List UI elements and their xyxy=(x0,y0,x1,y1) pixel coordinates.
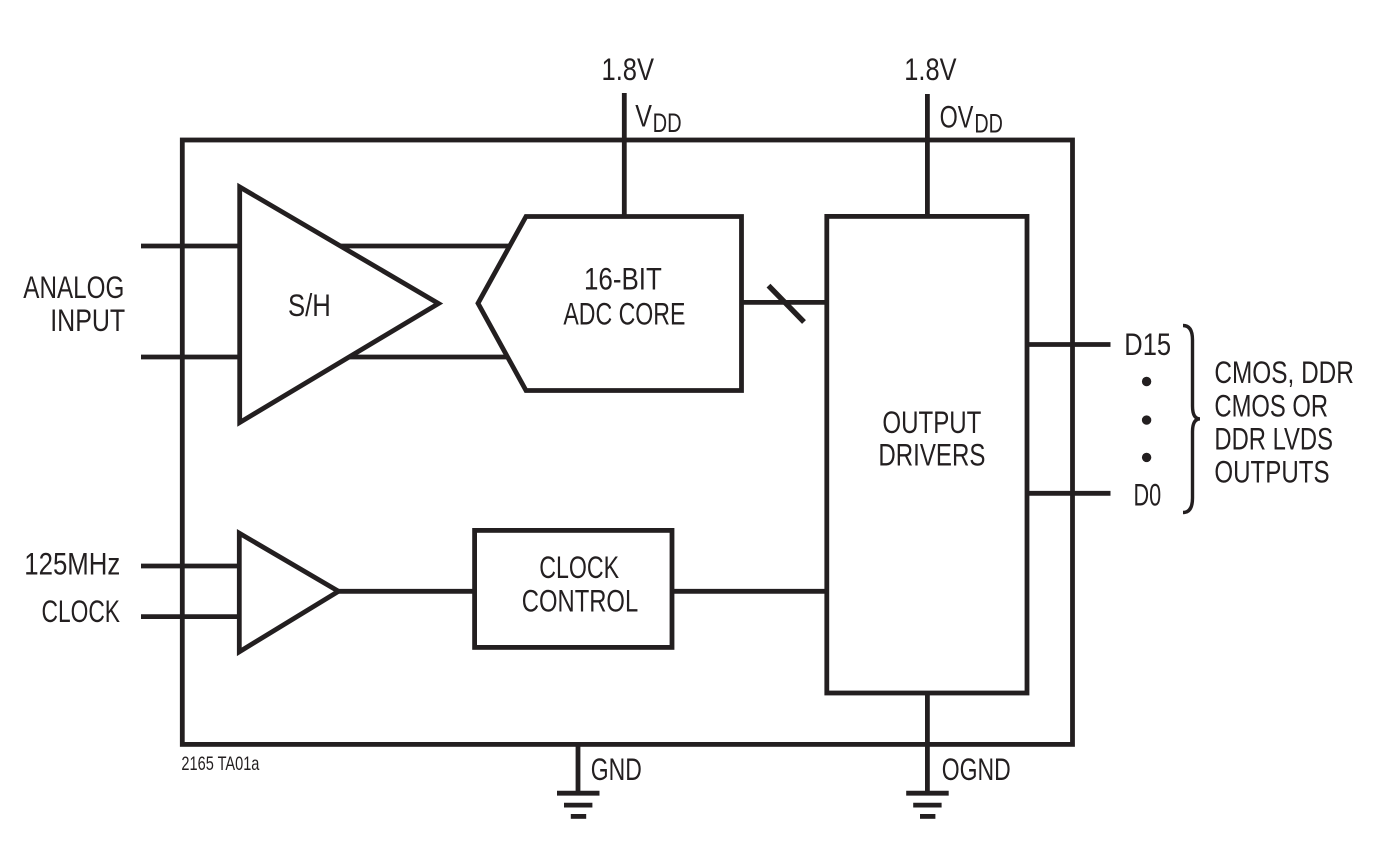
wire analog input bottom xyxy=(141,355,508,360)
pin OVDD xyxy=(940,98,1003,138)
svg-text:ANALOG: ANALOG xyxy=(23,269,124,305)
wire ADC core to output drivers bus xyxy=(742,300,827,305)
chip outline box xyxy=(182,140,1072,744)
svg-text:DDR LVDS: DDR LVDS xyxy=(1214,421,1333,457)
label CLOCK CONTROL xyxy=(522,549,638,619)
svg-text:V: V xyxy=(635,98,652,134)
svg-text:OUTPUTS: OUTPUTS xyxy=(1214,454,1329,490)
label 125MHz CLOCK xyxy=(24,546,120,629)
ground OGND xyxy=(906,793,949,816)
pin VDD xyxy=(635,98,681,138)
svg-text:D0: D0 xyxy=(1134,477,1162,513)
wire CLOCK input xyxy=(141,614,239,619)
block U2 OUTPUT DRIVERS xyxy=(827,216,1027,693)
wire clock buffer to clock control xyxy=(336,589,475,594)
wire clock control to output drivers xyxy=(672,589,827,594)
svg-text:OV: OV xyxy=(940,98,974,134)
svg-text:OGND: OGND xyxy=(942,751,1011,787)
svg-text:DD: DD xyxy=(653,108,682,138)
wire 125MHz clock input xyxy=(141,564,239,569)
svg-text:16-BIT: 16-BIT xyxy=(584,261,662,297)
label OUTPUT DRIVERS xyxy=(878,404,985,473)
label ANALOG INPUT xyxy=(23,269,125,338)
clock buffer amp xyxy=(239,533,338,652)
brace outputs xyxy=(1183,326,1200,513)
svg-text:CLOCK: CLOCK xyxy=(539,549,619,585)
svg-text:DD: DD xyxy=(974,109,1003,139)
svg-text:125MHz: 125MHz xyxy=(24,546,120,582)
label CMOS DDR outputs xyxy=(1214,354,1354,490)
svg-text:OUTPUT: OUTPUT xyxy=(882,404,981,440)
svg-text:D15: D15 xyxy=(1124,326,1171,362)
svg-text:CMOS, DDR: CMOS, DDR xyxy=(1214,354,1354,390)
wire OVDD supply xyxy=(925,94,930,216)
svg-text:CONTROL: CONTROL xyxy=(522,582,638,618)
wire D0 output xyxy=(1027,491,1111,496)
block U3 CLOCK CONTROL xyxy=(475,530,672,647)
wire analog input top xyxy=(141,244,510,249)
svg-text:CLOCK: CLOCK xyxy=(42,593,121,629)
wire GND stem xyxy=(576,744,581,791)
svg-text:S/H: S/H xyxy=(288,287,331,323)
svg-text:1.8V: 1.8V xyxy=(904,51,956,87)
ground GND xyxy=(557,793,600,816)
wire VDD supply xyxy=(622,93,627,217)
wire output drivers to OGND xyxy=(925,693,930,791)
wire D15 output xyxy=(1027,342,1111,347)
svg-text:GND: GND xyxy=(591,751,642,787)
label 16-BIT ADC CORE xyxy=(563,261,685,332)
svg-text:1.8V: 1.8V xyxy=(602,51,655,87)
op-amp S/H xyxy=(240,187,439,423)
bus slash xyxy=(769,286,805,322)
svg-text:INPUT: INPUT xyxy=(50,302,125,338)
svg-text:CMOS OR: CMOS OR xyxy=(1214,387,1328,423)
svg-text:ADC CORE: ADC CORE xyxy=(563,296,685,332)
svg-text:DRIVERS: DRIVERS xyxy=(878,437,985,473)
svg-text:2165 TA01a: 2165 TA01a xyxy=(181,753,259,775)
bus ellipsis dots xyxy=(1142,377,1151,462)
block U1 16-BIT ADC CORE xyxy=(478,217,742,391)
